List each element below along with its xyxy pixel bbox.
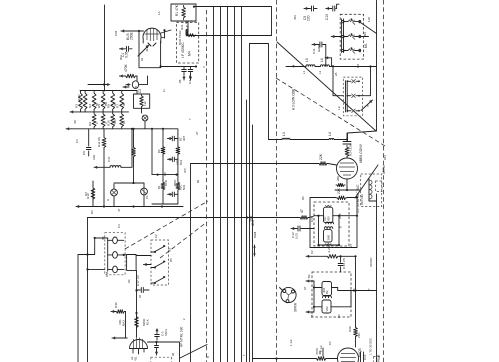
svg-text:1ON: 1ON [164,180,168,186]
svg-text:22K: 22K [319,153,323,160]
inductor L4 [328,132,334,139]
wire S2 links [86,254,124,271]
switch S1 contact 2 [342,33,362,39]
L7 trimmer arrow [361,100,373,111]
resistor R29 [118,315,150,329]
svg-text:4Ω7: 4Ω7 [182,135,186,141]
wire bus line 5 [241,7,243,362]
resistor R22 [336,187,347,199]
capacitor C13 [338,256,346,272]
svg-text:AC/DC: AC/DC [369,257,373,267]
svg-text:2T: 2T [349,243,353,247]
wire right edge lower [376,194,378,362]
resistor R30 [111,302,126,338]
output transformer T3 dashed box [312,272,351,317]
capacitor C16 [361,352,368,362]
svg-text:100: 100 [367,17,371,22]
svg-text:220: 220 [307,15,311,21]
pilot lamp I3 [141,183,149,207]
T2 primary winding [323,205,333,222]
capacitor C12 [291,226,314,239]
AVC diagonal wire [355,165,378,198]
svg-text:C11: C11 [312,48,316,54]
volume control box [127,255,137,271]
svg-text:B2: B2 [307,274,311,278]
capacitor C18 [155,328,168,340]
svg-text:R2: R2 [84,192,88,196]
svg-text:B6: B6 [352,288,356,292]
svg-text:C47: C47 [107,156,111,162]
wire S3 rotor arrow [144,248,172,266]
svg-text:4n5: 4n5 [183,168,187,173]
svg-text:R31: R31 [180,24,184,30]
svg-text:AT: AT [195,131,199,135]
wire switch rotor [331,17,376,48]
tube V5 audio output [338,348,359,362]
tube V4 12AV6 [130,338,148,355]
capacitor C8 [168,192,178,197]
node right label 1 [382,167,386,174]
wire second rail [187,35,272,37]
svg-text:1B: 1B [122,120,126,124]
band switch S1 dashed box [340,14,363,59]
capacitor C3 [178,67,186,85]
svg-text:L4: L4 [328,132,332,136]
svg-text:C4 .05: C4 .05 [188,75,192,84]
svg-text:3K: 3K [122,102,126,106]
svg-text:0.02: 0.02 [295,233,299,239]
T3 secondary [313,281,338,313]
svg-text:47: 47 [300,209,304,213]
svg-text:68: 68 [171,352,175,356]
node ANT [251,219,255,226]
svg-text:50M: 50M [253,232,257,238]
svg-text:L9: L9 [337,106,341,110]
svg-text:C10: C10 [325,14,329,20]
wire RF row [269,133,348,140]
trimmer arrow [138,45,149,56]
resistor R8 boxed 1W [134,91,150,114]
wire speaker leads [0,0,1,1]
node V4 label [130,356,172,362]
wire bus line 6 [246,100,248,362]
resistor R7 [116,91,124,112]
svg-text:C5: C5 [82,151,86,155]
T2 coupling coils [324,222,333,228]
svg-text:452: 452 [293,15,297,20]
T3 primary [314,282,338,296]
resistor R24 [345,143,352,158]
svg-text:R1 47K: R1 47K [175,4,179,16]
svg-text:A7: A7 [303,286,307,290]
oscillator coil L7 dashed box [343,77,362,116]
resistor R13 [132,128,136,183]
wire bus line 7 [249,44,251,362]
svg-text:22: 22 [138,294,142,298]
wire plate feed [356,290,377,292]
svg-text:a: a [366,105,370,107]
svg-text:C16: C16 [363,354,367,360]
svg-text:1L: 1L [162,88,166,92]
switch S2 contact 2 [108,252,124,259]
svg-text:C2: C2 [154,234,158,238]
svg-text:T: T [242,354,246,356]
node AVC label [356,184,364,213]
wire AF bus [190,164,192,362]
wire V4 plate [148,341,180,362]
svg-text:V02: V02 [325,306,329,312]
node oscillator label [292,88,296,110]
svg-text:1M4: 1M4 [338,213,342,219]
svg-text:5Ω1: 5Ω1 [182,184,186,190]
op point B+ arrow with wire [121,29,144,40]
svg-text:C2: C2 [328,341,332,345]
switch S2 contact 1 [108,237,124,244]
dial cord diagonal D2 dashed [276,78,385,146]
capacitor C10 [325,4,339,20]
dashed chassis line right [383,0,385,362]
svg-text:BLK: BLK [146,318,150,325]
resistor R2 [120,63,138,81]
svg-text:250E: 250E [130,31,134,40]
svg-text:S2: S2 [101,236,105,240]
wire V5 grid [253,357,338,359]
capacitor C7 [168,157,184,165]
svg-text:FR3: FR3 [77,94,81,100]
svg-text:5Ω1: 5Ω1 [179,159,183,165]
svg-text:MW7: MW7 [173,179,177,186]
resistor R4 [88,91,96,112]
svg-text:B4: B4 [157,149,161,153]
wire AVC return [306,255,357,258]
wire third rail [250,44,269,140]
svg-text:6AQ5: 6AQ5 [358,348,362,357]
wire bus B+ line 1 [213,7,215,362]
svg-text:50: 50 [95,102,99,106]
wire osc row [286,65,377,67]
dashed chassis line left [206,10,208,362]
dashed box fragment bottom right [374,357,381,362]
wire bus link [78,237,108,256]
wire S1 lower arrow [325,56,332,66]
wire B+ feed [186,30,196,37]
svg-text:C28: C28 [114,30,118,36]
IF transformer T1 dashed box [176,22,198,63]
wire T2 outer shield rect [310,196,358,247]
resistor R15 [299,209,309,219]
svg-text:22K: 22K [357,332,361,338]
svg-text:0.05: 0.05 [125,51,129,58]
svg-text:64C3: 64C3 [164,329,168,336]
capacitor C14 [343,138,351,144]
svg-text:M1: M1 [364,43,368,48]
tone switch S2 dashed box [105,233,125,275]
wire T3 primary left arrow [306,274,314,282]
svg-text:43-0: 43-0 [145,46,149,52]
wire T3 secondary left arrow [306,310,314,313]
dashed chassis line center [276,0,278,362]
svg-text:C48: C48 [105,271,109,277]
svg-text:1B1: 1B1 [383,155,387,160]
inductor L3 [282,132,290,139]
inductor L2 choke [94,128,133,169]
svg-text:C14 .05: C14 .05 [342,258,346,269]
svg-text:470K: 470K [124,63,128,72]
svg-text:2A: 2A [334,72,338,76]
wire ladder rail 2 [70,110,129,113]
wire S1 common bar [342,19,344,53]
switch S2 contact 3 [108,266,124,273]
svg-text:GANG: GANG [317,44,321,52]
svg-text:R24 22K: R24 22K [349,143,353,156]
tube V3 6BE6 converter [337,158,358,179]
svg-text:20K: 20K [336,176,340,181]
svg-text:1A: 1A [157,11,161,15]
IF transformer T2 dashed box [314,202,349,246]
tube V1 6BA6 IF [143,28,161,46]
resistor R12 [86,181,95,207]
svg-text:B4: B4 [337,314,341,318]
capacitor C9 [303,6,317,21]
svg-text:R9: R9 [88,122,92,126]
svg-text:M1: M1 [363,32,367,36]
resistor ladder row2 #3 [120,112,124,129]
svg-text:4Ω2: 4Ω2 [322,287,326,293]
node 6BE6 label [359,143,363,163]
wire T2 taps [314,215,358,247]
dashed box fragment right [376,181,383,192]
wire ladder rail 3 [66,127,178,145]
resistor R21 [84,192,88,196]
svg-text:.05: .05 [178,79,182,84]
svg-text:O5: O5 [169,258,173,262]
T3 coupling coil [323,296,332,298]
wire bus line 3 [227,7,229,362]
svg-text:PL: PL [145,195,149,199]
wire mixer grid line [191,164,337,166]
capacitor C1 [120,46,133,58]
resistor R5 [97,91,105,112]
resistor R3 [75,91,83,112]
antenna arrow [88,83,111,86]
svg-text:R4: R4 [88,104,92,108]
wire ANT line [88,216,315,219]
svg-text:M4: M4 [188,51,192,56]
pilot lamp I1 [142,115,148,129]
wire mixer cathode [335,179,361,191]
resistor R20 [176,175,186,204]
svg-text:1 1/2: 1 1/2 [289,339,293,346]
resistor R10 [107,112,115,129]
resistor R17 [176,135,186,174]
speaker LS1 [280,287,298,312]
node misc value labels [73,11,387,358]
svg-text:R26: R26 [348,326,352,332]
capacitor C4 [188,67,193,85]
capacitor C11 [312,42,326,66]
wire ladder bottom rail [76,205,183,208]
dial cord diagonal D1 [277,42,376,131]
switch S3 contact 2 [151,261,165,269]
wire S3 to S2 [124,254,151,257]
svg-text:C3: C3 [75,139,79,143]
dial cord diagonal D3 dashed [125,201,208,249]
wire ladder mid rail [151,128,178,176]
svg-text:455: 455 [327,216,331,221]
wire osc coil tap [333,65,372,95]
svg-text:SPKR: SPKR [294,302,298,312]
svg-text:2.2M: 2.2M [327,245,331,252]
svg-text:B1: B1 [196,179,200,183]
svg-text:B1: B1 [157,185,161,189]
wire bus line 8 [252,125,254,362]
switch S1 contact 1 [342,18,362,24]
resistor ladder row1 #1 [83,91,87,112]
inductor L6 [320,58,329,66]
svg-text:PWR: PWR [377,354,381,362]
wire R28 spot (merged with R12) [0,0,1,1]
svg-text:L1: L1 [302,70,306,74]
svg-text:C2: C2 [138,89,142,93]
svg-text:A02: A02 [92,154,96,160]
svg-text:1 1/2: 1 1/2 [319,345,323,352]
inductor L5 [305,58,315,66]
wire left bus 1 [87,218,89,362]
T2 secondary winding [324,226,343,245]
wire antenna lead [104,5,106,91]
resistor R14 [318,153,328,165]
svg-text:L5: L5 [305,58,309,62]
switch S3 contact 3 [151,276,165,284]
capacitor C17 [136,275,149,293]
svg-text:R3: R3 [75,104,79,108]
svg-text:KC: KC [323,216,327,220]
svg-text:L6: L6 [320,58,324,62]
svg-text:S3: S3 [168,248,172,252]
svg-text:1M: 1M [356,63,360,68]
resistor R1 in box [171,4,196,21]
svg-text:N5: N5 [301,196,305,200]
wire V4 grid return [112,336,127,339]
svg-text:C4: C4 [117,224,121,228]
svg-text:1W: 1W [143,101,147,106]
wire bus line 4 [234,7,236,362]
resistor R16 [157,128,165,175]
wire ladder rail 1 [80,90,137,92]
capacitor C5 [82,129,91,156]
node bus top component [187,6,195,37]
svg-text:6BE6 CONV: 6BE6 CONV [359,143,363,163]
svg-text:HF MTML 990: HF MTML 990 [180,327,184,347]
svg-text:411: 411 [134,356,138,361]
svg-text:22K: 22K [337,187,341,194]
oscillator grid box dashed [361,174,382,207]
svg-text:22: 22 [184,20,188,24]
svg-text:A4: A4 [127,279,131,283]
svg-text:4N: 4N [73,120,77,124]
svg-text:C9: C9 [163,172,167,176]
svg-text:B: B [206,356,210,358]
svg-text:L2: L2 [318,70,322,74]
resistor R27 [315,347,327,361]
svg-text:1O5: 1O5 [310,216,314,222]
resistor R23 [326,245,340,258]
wire ladder lower rail end [152,203,178,205]
resistor R25 [336,176,345,187]
svg-text:T5: T5 [310,314,314,318]
resistor R19 [157,175,165,204]
resistor R26 [348,326,361,347]
resistor R31 [180,24,184,30]
svg-text:1M5: 1M5 [327,234,331,240]
svg-text:5MM: 5MM [248,215,252,222]
svg-text:020: 020 [113,119,117,124]
pilot lamp I2 [106,184,117,207]
svg-text:R2: R2 [90,210,94,214]
svg-text:1 TO 30 SEC: 1 TO 30 SEC [369,338,373,355]
dial pointer mark [253,245,256,256]
wire bus line 2 [220,7,222,362]
svg-text:C17 .02: C17 .02 [136,275,140,286]
svg-text:B: B [134,86,138,88]
svg-text:R30: R30 [114,302,118,308]
wire tube plate [161,29,171,38]
capacitor C15 [319,345,323,356]
wire volume to tube [135,270,137,337]
svg-text:MAX: MAX [122,320,126,326]
function switch S3 dashed box [151,240,169,285]
svg-text:2A: 2A [113,102,117,106]
node V5 label [358,348,362,357]
resistor ladder row2 #1 [101,112,105,129]
dial cord diagonal D5 [180,345,207,359]
node AF label [180,327,184,347]
svg-text:SI: SI [382,165,386,168]
svg-text:R11 6K: R11 6K [97,136,101,147]
wire T3 right [338,256,357,326]
node label top small [105,271,109,277]
wire right edge upper [348,0,377,141]
svg-text:007: 007 [119,55,123,60]
svg-text:BUD TRLR: BUD TRLR [178,31,182,45]
node right label 2 [369,257,382,362]
capacitor C6 [168,136,178,141]
wire top rail [194,7,272,36]
wire tube cathode net [138,30,197,68]
switch S1 contact 3 [342,47,362,53]
svg-text:8W: 8W [104,101,108,106]
wire left bus 2 [77,255,79,362]
svg-text:C2: C2 [310,250,314,254]
resistor R11 [97,129,106,207]
ground arrow above ladder [123,85,129,88]
resistor R6 [107,91,115,112]
dial cord diagonal D4 [160,222,207,258]
resistor R9 [88,112,96,129]
switch S3 contact 1 [151,245,165,253]
L7 row contacts [347,79,360,83]
svg-text:47: 47 [117,208,121,212]
svg-text:A 3 LOW ODE: A 3 LOW ODE [292,88,296,110]
svg-text:L3: L3 [282,132,286,136]
wire ladder mid [114,182,144,184]
svg-text:A1: A1 [140,57,144,61]
capacitor C2 electrolytic [126,76,148,93]
